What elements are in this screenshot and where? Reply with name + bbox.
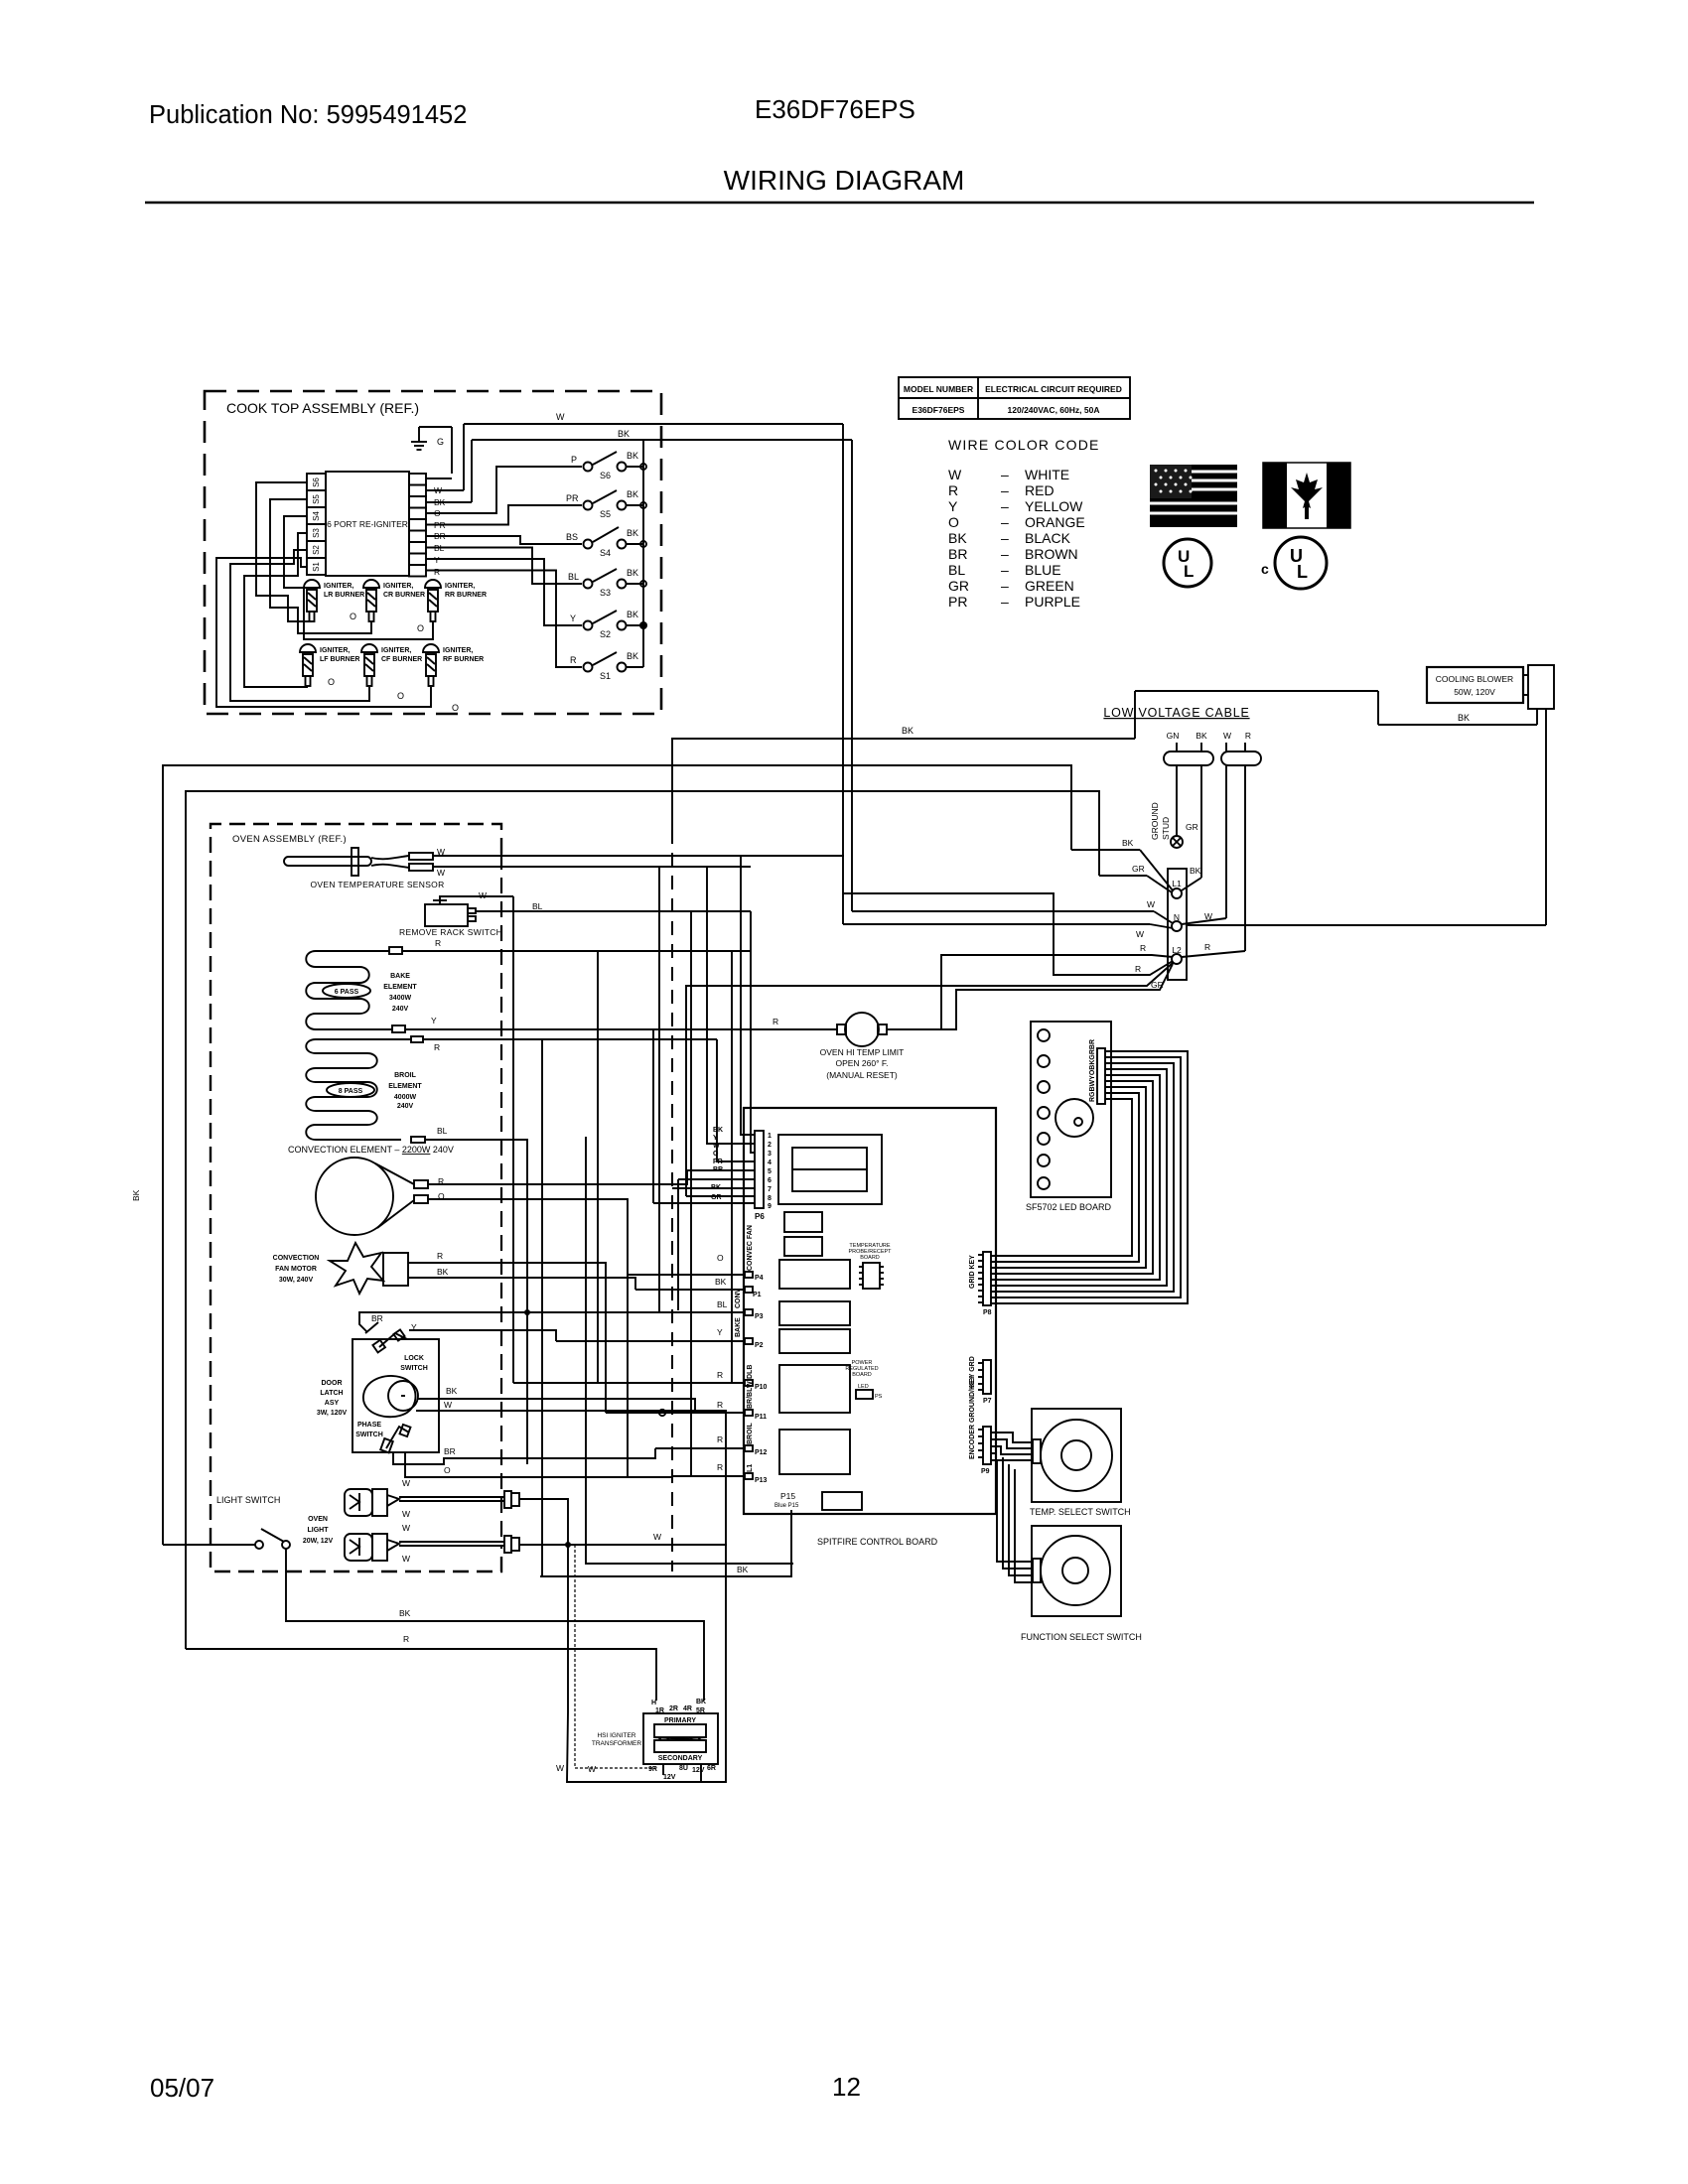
wire BK cable to L1 [1182, 765, 1201, 890]
terminal block [1168, 869, 1187, 980]
svg-text:BK: BK [627, 489, 638, 499]
wire W cable to N [1182, 765, 1226, 924]
wire R in to L2 [941, 943, 1173, 1029]
relay K4 [779, 1301, 850, 1325]
wire fan R [408, 1251, 606, 1413]
svg-text:BOARD: BOARD [852, 1372, 872, 1378]
wire spare bundle 1 [586, 1137, 793, 1564]
door latch cam [363, 1376, 418, 1417]
svg-text:P15: P15 [780, 1491, 795, 1501]
wire function switch drop [1002, 1456, 1004, 1458]
svg-text:Y: Y [431, 1016, 437, 1025]
svg-text:FUNCTION SELECT SWITCH: FUNCTION SELECT SWITCH [1021, 1632, 1142, 1642]
relay K6 [779, 1365, 850, 1413]
LED to P8 wire bundle [991, 1051, 1188, 1303]
svg-text:240V: 240V [392, 1006, 409, 1013]
svg-text:BAKE: BAKE [390, 973, 410, 980]
wire PR to S5 [426, 505, 582, 525]
cooling blower [1427, 665, 1554, 709]
svg-text:Blue P15: Blue P15 [774, 1503, 799, 1509]
low voltage cable [1103, 706, 1261, 765]
svg-text:3: 3 [768, 1151, 772, 1158]
svg-text:BK: BK [737, 1565, 749, 1574]
svg-text:W: W [402, 1554, 410, 1564]
relay K8 [822, 1492, 862, 1510]
svg-text:H: H [651, 1700, 656, 1706]
svg-text:BK: BK [627, 528, 638, 538]
convection fan motor [273, 1243, 408, 1294]
oven hi temp limit [820, 1013, 905, 1080]
igniter RF burner [423, 644, 484, 686]
svg-text:–: – [1001, 482, 1009, 498]
svg-text:BK: BK [627, 610, 638, 619]
svg-text:CONV: CONV [735, 1288, 742, 1308]
svg-text:S2: S2 [600, 629, 611, 639]
svg-text:SF5702 LED BOARD: SF5702 LED BOARD [1026, 1202, 1112, 1212]
svg-text:S3: S3 [312, 528, 321, 538]
svg-text:120/240VAC, 60Hz, 50A: 120/240VAC, 60Hz, 50A [1008, 405, 1100, 415]
BK bus cook top [642, 440, 644, 667]
svg-text:S6: S6 [600, 471, 611, 480]
wire BR to S4 [426, 536, 582, 544]
svg-text:LR BURNER: LR BURNER [324, 592, 364, 599]
wire W2 in to N [843, 924, 1173, 939]
relay K5 [779, 1329, 850, 1353]
wire W in to N [852, 899, 1173, 923]
svg-text:IGNITER,: IGNITER, [320, 647, 350, 654]
oven temperature sensor [284, 847, 445, 889]
svg-text:R: R [773, 1017, 778, 1026]
svg-text:BK: BK [131, 1189, 141, 1201]
wire W loop to transformer [556, 1545, 727, 1782]
svg-text:S1: S1 [600, 671, 611, 681]
svg-text:BK: BK [1196, 731, 1207, 741]
wire BK vertical drop [842, 424, 844, 924]
svg-text:9R: 9R [648, 1766, 657, 1773]
svg-text:W: W [1204, 911, 1212, 921]
svg-text:W: W [1136, 929, 1144, 939]
wire phase BR [393, 1446, 655, 1464]
svg-text:Y: Y [434, 555, 440, 565]
connector P12 [655, 1423, 768, 1457]
svg-text:W: W [434, 485, 442, 495]
spitfire control board [744, 1108, 996, 1547]
svg-text:5R: 5R [696, 1707, 705, 1714]
svg-text:R: R [717, 1400, 723, 1410]
wire bundle vertical B [658, 867, 660, 1312]
svg-text:L: L [1297, 562, 1308, 582]
wire fan BK [408, 1267, 635, 1290]
svg-text:c: c [1261, 561, 1269, 577]
svg-text:BR: BR [444, 1446, 456, 1456]
svg-text:S5: S5 [600, 509, 611, 519]
switch S4 [566, 527, 646, 558]
svg-text:3400W: 3400W [389, 995, 412, 1002]
model number table [899, 377, 1130, 419]
svg-text:P4: P4 [755, 1275, 764, 1282]
svg-text:OVEN: OVEN [308, 1516, 328, 1523]
svg-text:O: O [350, 612, 356, 621]
wire broil BL [411, 1126, 527, 1464]
temperature probe receptacle [848, 1243, 892, 1289]
svg-text:W: W [1223, 731, 1231, 741]
svg-text:W: W [402, 1478, 410, 1488]
svg-text:P9: P9 [981, 1468, 990, 1475]
svg-text:BK: BK [446, 1386, 458, 1396]
svg-text:IGNITER,: IGNITER, [383, 583, 413, 590]
svg-text:Publication No: 5995491452: Publication No: 5995491452 [149, 101, 467, 129]
relay K7 [779, 1430, 850, 1474]
svg-text:LIGHT SWITCH: LIGHT SWITCH [216, 1495, 280, 1505]
light switch [163, 1495, 290, 1549]
svg-text:2R: 2R [669, 1706, 678, 1712]
svg-text:PURPLE: PURPLE [1025, 594, 1080, 610]
wire lock W [416, 1400, 726, 1545]
svg-text:W: W [402, 1523, 410, 1533]
svg-text:–: – [1001, 546, 1009, 562]
svg-text:R: R [948, 482, 958, 498]
bake element coil [306, 951, 417, 1029]
switch S6 [571, 451, 646, 480]
svg-text:BK: BK [715, 1277, 727, 1287]
temp select switch [1030, 1409, 1131, 1517]
wire BK light switch to transformer [286, 1549, 704, 1701]
switch S2 [570, 610, 647, 639]
svg-text:R: R [435, 938, 441, 948]
svg-text:IGNITER,: IGNITER, [324, 583, 353, 590]
svg-text:LATCH: LATCH [320, 1390, 343, 1397]
wire BK in to L1 [1071, 838, 1173, 890]
svg-text:05/07: 05/07 [150, 2073, 214, 2103]
svg-text:R: R [717, 1462, 723, 1472]
relay K3 [779, 1260, 850, 1289]
wire remove rack BL to P6 [751, 911, 755, 1153]
svg-text:L: L [1184, 562, 1194, 581]
svg-text:COOLING BLOWER: COOLING BLOWER [1436, 674, 1513, 684]
svg-text:P6: P6 [755, 1212, 765, 1221]
svg-text:P8: P8 [983, 1309, 992, 1316]
oven light 2 [345, 1523, 519, 1564]
svg-text:P13: P13 [755, 1477, 768, 1484]
svg-text:W: W [402, 1509, 410, 1519]
wire BK long horizontal [671, 726, 1135, 739]
svg-text:BK: BK [1122, 838, 1134, 848]
svg-text:ELEMENT: ELEMENT [383, 984, 417, 991]
svg-text:BAKE: BAKE [735, 1317, 742, 1337]
svg-text:–: – [1001, 578, 1009, 594]
svg-text:CONVECTION: CONVECTION [273, 1255, 320, 1262]
svg-text:BK: BK [948, 530, 967, 546]
wire O to S6 [426, 467, 582, 513]
svg-text:1R: 1R [655, 1707, 664, 1714]
svg-text:R: R [1245, 731, 1251, 741]
wire P6 lower pins [653, 1029, 755, 1203]
svg-text:Y: Y [948, 498, 958, 514]
connector P4 [628, 1225, 764, 1282]
pin wire labels [434, 485, 446, 577]
svg-text:RGBWYOBKGRBR: RGBWYOBKGRBR [1089, 1039, 1096, 1102]
wire lock BK [418, 1386, 695, 1413]
connector P13 [672, 1462, 768, 1484]
svg-text:12: 12 [832, 2072, 861, 2102]
svg-text:S2: S2 [312, 545, 321, 555]
footer [150, 2072, 861, 2103]
wire sensor W2 to P6 [433, 867, 755, 1144]
svg-text:BL: BL [532, 901, 543, 911]
svg-text:R: R [434, 1042, 440, 1052]
svg-text:TEMP. SELECT SWITCH: TEMP. SELECT SWITCH [1030, 1507, 1131, 1517]
svg-text:YELLOW: YELLOW [1025, 498, 1083, 514]
wire from hi temp limit right [887, 964, 1173, 1029]
svg-text:BL: BL [437, 1126, 448, 1136]
svg-text:PHASE: PHASE [357, 1422, 381, 1429]
svg-text:S4: S4 [600, 548, 611, 558]
lock switch symbol [365, 1313, 417, 1352]
svg-text:W: W [948, 467, 962, 482]
svg-text:FAN MOTOR: FAN MOTOR [275, 1266, 317, 1273]
svg-text:8: 8 [768, 1195, 772, 1202]
svg-text:Y: Y [570, 614, 576, 623]
svg-text:ELEMENT: ELEMENT [388, 1083, 422, 1090]
svg-text:RR BURNER: RR BURNER [445, 592, 487, 599]
svg-text:W: W [479, 890, 487, 900]
svg-text:BK: BK [1458, 713, 1470, 723]
svg-text:P10: P10 [755, 1384, 768, 1391]
wire sensor W1 [433, 855, 844, 857]
wire bake R to hi temp [732, 951, 751, 1383]
svg-text:P7: P7 [983, 1398, 992, 1405]
wire BK long vertical [671, 739, 673, 830]
svg-text:O: O [328, 677, 335, 687]
wire bake R [389, 938, 751, 954]
svg-text:L1: L1 [747, 1464, 754, 1472]
wire R2 in to L2 [843, 893, 1173, 975]
svg-text:GR: GR [1132, 864, 1145, 874]
wire GR from L2 [686, 963, 1173, 1196]
svg-text:SECONDARY: SECONDARY [658, 1755, 703, 1762]
re-igniter U1 [326, 472, 409, 576]
svg-text:W: W [444, 1400, 452, 1410]
svg-text:IGNITER,: IGNITER, [445, 583, 475, 590]
wire bundle vertical C [690, 911, 692, 1476]
svg-text:RF BURNER: RF BURNER [443, 656, 484, 663]
svg-text:BR: BR [713, 1166, 723, 1173]
svg-text:(MANUAL RESET): (MANUAL RESET) [826, 1070, 898, 1080]
wire R to hi temp limit [773, 1017, 778, 1026]
svg-text:P2: P2 [755, 1342, 764, 1349]
header [145, 94, 1534, 203]
svg-text:8U: 8U [679, 1765, 688, 1772]
svg-text:W: W [1147, 899, 1155, 909]
wire light1 W [519, 1499, 568, 1545]
svg-text:9: 9 [768, 1203, 772, 1210]
display module [778, 1135, 882, 1204]
svg-text:R: R [717, 1434, 723, 1444]
svg-text:S1: S1 [312, 562, 321, 572]
svg-text:BOARD: BOARD [860, 1255, 880, 1261]
svg-text:8 PASS: 8 PASS [339, 1088, 363, 1095]
svg-text:BR: BR [948, 546, 967, 562]
igniter LF burner [300, 644, 359, 686]
svg-text:LOW VOLTAGE CABLE: LOW VOLTAGE CABLE [1103, 706, 1249, 720]
svg-text:7: 7 [768, 1186, 772, 1193]
svg-text:OPEN 260° F.: OPEN 260° F. [835, 1058, 888, 1068]
svg-text:SPITFIRE CONTROL BOARD: SPITFIRE CONTROL BOARD [817, 1537, 938, 1547]
oven light 1 [345, 1478, 519, 1519]
svg-text:REMOVE RACK SWITCH: REMOVE RACK SWITCH [399, 927, 502, 937]
svg-text:GRID KEY: GRID KEY [969, 1255, 976, 1289]
svg-text:ENCODER GROUND/KEY: ENCODER GROUND/KEY [969, 1375, 976, 1459]
relay K2 [784, 1237, 822, 1256]
svg-text:O: O [713, 1151, 719, 1158]
svg-text:BK: BK [627, 568, 638, 578]
switch S3 [568, 568, 646, 598]
svg-text:W: W [588, 1764, 596, 1774]
wire BK from blower [1135, 691, 1537, 739]
wire Y to S2 [426, 559, 582, 625]
svg-text:BR: BR [371, 1313, 383, 1323]
svg-text:O: O [452, 703, 459, 713]
svg-text:MODEL NUMBER: MODEL NUMBER [904, 384, 973, 394]
svg-text:WIRE COLOR CODE: WIRE COLOR CODE [948, 437, 1100, 453]
svg-text:P: P [571, 455, 577, 465]
ground stud [1150, 765, 1198, 848]
connector P8 [969, 1252, 992, 1316]
wire bundle vertical D [541, 1039, 543, 1576]
svg-text:–: – [1001, 594, 1009, 610]
svg-text:240V: 240V [397, 1103, 414, 1110]
wire broil R [411, 1036, 717, 1052]
wire spare bundle 2 [628, 1275, 672, 1477]
wire left frame 2 [186, 791, 1099, 1649]
svg-text:Y: Y [717, 1327, 723, 1337]
svg-text:30W, 240V: 30W, 240V [279, 1277, 314, 1284]
wire light2 W junction [519, 1532, 727, 1548]
svg-text:BLACK: BLACK [1025, 530, 1071, 546]
igniter RR burner [425, 580, 487, 621]
svg-text:SWITCH: SWITCH [355, 1432, 383, 1438]
svg-text:CONVECTION ELEMENT – 2200W 24: CONVECTION ELEMENT – 2200W 240V [288, 1145, 454, 1155]
svg-text:CR BURNER: CR BURNER [383, 592, 425, 599]
svg-text:P3: P3 [755, 1313, 764, 1320]
switch S5 [566, 489, 646, 519]
svg-text:WIRING DIAGRAM: WIRING DIAGRAM [724, 165, 965, 196]
connector P11 [606, 1381, 767, 1421]
svg-text:TRANSFORMER: TRANSFORMER [592, 1740, 642, 1747]
svg-text:GR: GR [948, 578, 969, 594]
svg-text:O: O [717, 1253, 724, 1263]
svg-text:IGNITER,: IGNITER, [381, 647, 411, 654]
svg-text:STUD: STUD [1161, 817, 1171, 840]
svg-text:P12: P12 [755, 1449, 768, 1456]
function select switch [1021, 1526, 1142, 1642]
svg-text:PR: PR [566, 493, 579, 503]
wire convection O [428, 1199, 628, 1275]
connector P9 [969, 1375, 991, 1475]
svg-text:S5: S5 [312, 494, 321, 504]
svg-text:O: O [397, 691, 404, 701]
wire remove rack BL [476, 910, 751, 912]
re-igniter left pins S6-S1 [307, 474, 326, 575]
LED board connector [1089, 1039, 1105, 1104]
svg-text:BL: BL [568, 572, 579, 582]
svg-text:OVEN TEMPERATURE SENSOR: OVEN TEMPERATURE SENSOR [310, 880, 444, 889]
wire R cable to L2 [1182, 765, 1245, 957]
connector P10 [513, 1365, 768, 1391]
svg-text:–: – [1001, 514, 1009, 530]
power supply label [845, 1360, 882, 1400]
UL logo [1164, 539, 1211, 587]
svg-text:GROUND: GROUND [1150, 802, 1160, 840]
svg-text:BK: BK [618, 429, 630, 439]
svg-text:6R: 6R [707, 1765, 716, 1772]
wire W from pin to top [426, 412, 843, 490]
svg-text:G: G [437, 437, 444, 447]
wire W vertical drop [851, 440, 853, 911]
svg-text:O: O [417, 623, 424, 633]
ground [411, 427, 452, 478]
svg-text:GN: GN [1167, 731, 1180, 741]
svg-text:20W, 12V: 20W, 12V [303, 1538, 334, 1545]
svg-text:P11: P11 [755, 1414, 767, 1421]
svg-text:O: O [444, 1465, 451, 1475]
svg-text:SWITCH: SWITCH [400, 1365, 428, 1372]
wire sensor W2 [433, 866, 751, 868]
svg-text:LIGHT: LIGHT [308, 1527, 330, 1534]
svg-text:2: 2 [768, 1142, 772, 1149]
wire latch Y [409, 1330, 556, 1341]
igniter transformer T1 [592, 1699, 718, 1781]
svg-text:BL: BL [717, 1299, 728, 1309]
wire P6 pin6 [678, 1179, 755, 1310]
oven light label [303, 1516, 334, 1545]
connector P2 [556, 1317, 764, 1349]
svg-text:BROIL: BROIL [394, 1072, 417, 1079]
US flag [1150, 465, 1237, 527]
wire left frame 1 [131, 765, 1071, 1545]
svg-text:S3: S3 [600, 588, 611, 598]
svg-text:BK: BK [399, 1608, 411, 1618]
svg-text:BK: BK [437, 1267, 449, 1277]
connector P7 [969, 1356, 992, 1405]
cUL logo [1261, 537, 1327, 589]
igniter CR burner [363, 580, 425, 621]
svg-text:4: 4 [768, 1160, 772, 1166]
svg-text:COOK TOP ASSEMBLY (REF.): COOK TOP ASSEMBLY (REF.) [226, 400, 419, 416]
svg-text:P1: P1 [753, 1292, 762, 1298]
svg-text:BL: BL [948, 562, 965, 578]
svg-text:1: 1 [768, 1133, 772, 1140]
svg-text:R: R [1135, 964, 1141, 974]
svg-text:RED: RED [1025, 482, 1055, 498]
igniter wiring S-pins [216, 482, 459, 713]
wire BK from pin to right [426, 429, 852, 502]
svg-text:12V: 12V [692, 1767, 705, 1774]
wire R to S1 [426, 571, 582, 668]
svg-text:W: W [653, 1532, 661, 1542]
connector P15 [774, 1491, 799, 1514]
svg-text:W: W [556, 1763, 564, 1773]
svg-text:DLB: DLB [747, 1365, 754, 1379]
svg-text:R: R [570, 655, 577, 665]
svg-text:3W, 120V: 3W, 120V [317, 1410, 348, 1417]
svg-text:12V: 12V [663, 1774, 676, 1781]
svg-text:BK: BK [713, 1127, 723, 1134]
svg-text:PS: PS [875, 1394, 883, 1400]
wire GR in to L1 [1099, 864, 1172, 892]
svg-text:PR: PR [948, 594, 967, 610]
P6 wire labels [711, 1127, 723, 1201]
